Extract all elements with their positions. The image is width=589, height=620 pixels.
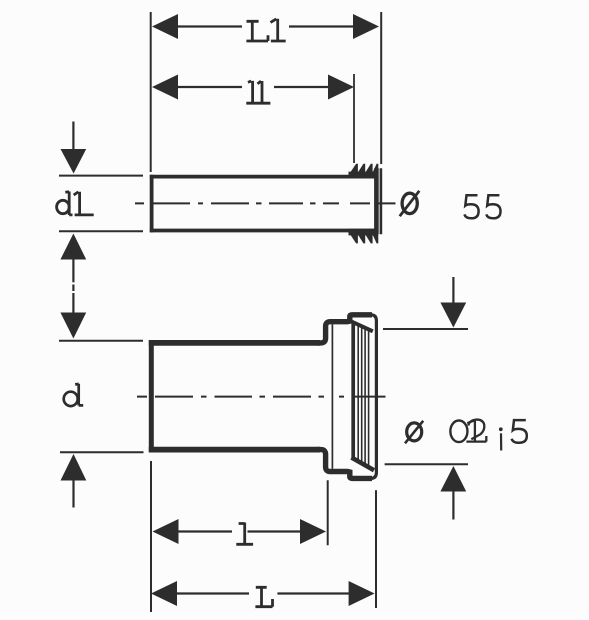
dimension L line	[177, 592, 350, 594]
dimension d upper extension line	[59, 340, 143, 342]
dimension l left arrowhead	[153, 519, 179, 544]
label 5 bottom	[512, 420, 527, 443]
socket seal face	[351, 324, 355, 460]
dimension L1 right arrowhead	[353, 14, 379, 39]
dimension L left arrowhead	[151, 581, 177, 606]
label 55	[464, 195, 500, 218]
extension line right l	[327, 480, 329, 545]
dimension l right arrowhead	[300, 519, 326, 544]
label inverted exclamation	[499, 427, 503, 450]
top pipe centerline	[135, 202, 396, 204]
top pipe end face	[376, 168, 381, 234]
top pipe thread serrations bottom	[349, 229, 379, 244]
extension line left (L1/l1)	[150, 12, 152, 172]
label L	[255, 587, 272, 606]
label l1	[246, 81, 270, 103]
label 12 ligature	[466, 420, 486, 442]
diameter symbol top	[400, 191, 420, 216]
bottom pipe centerline	[137, 396, 386, 398]
socket inner wall line	[331, 324, 333, 468]
socket seal bottom chamfer	[352, 458, 375, 471]
socket diameter lower extension line	[385, 463, 468, 465]
socket collar outline top	[317, 315, 372, 343]
socket collar right edge	[371, 315, 376, 479]
socket seal top chamfer	[349, 321, 373, 332]
dimension l line	[178, 530, 302, 532]
label L1	[246, 19, 285, 41]
diameter symbol bottom	[405, 421, 423, 444]
bottom pipe body	[149, 340, 320, 452]
label d	[64, 384, 84, 406]
dimension d1 upper extension line	[59, 175, 143, 177]
dimension L right arrowhead	[349, 581, 375, 606]
dimension L1 left arrowhead	[152, 14, 178, 39]
extension line right l1	[353, 74, 355, 163]
extension line bottom left (l/L)	[150, 461, 152, 612]
dimension d1 lower extension line	[59, 230, 143, 232]
dimension d1 bottom arrow	[60, 234, 86, 260]
label 0	[450, 421, 467, 443]
socket collar outline bottom	[317, 450, 372, 479]
label l	[236, 523, 253, 545]
dimension l1 line	[170, 86, 330, 88]
extension line right L1	[380, 12, 382, 164]
top pipe thread serrations top	[349, 164, 379, 178]
top pipe body	[150, 175, 378, 233]
dimension d bottom arrow	[61, 454, 87, 508]
dimension d lower extension line	[60, 451, 144, 453]
dimension d1 top arrow	[61, 122, 87, 174]
socket diameter bottom arrow	[440, 466, 466, 520]
dimension l1 right arrowhead	[328, 75, 354, 100]
label d1	[57, 192, 94, 216]
socket diameter upper extension line	[383, 328, 468, 330]
stem between d1 and d arrows (dash-dot)	[72, 260, 74, 313]
socket seal hatch lines	[358, 325, 368, 467]
dimension L1 line	[170, 25, 355, 27]
dimension d top arrow	[60, 313, 86, 339]
socket diameter top arrow	[440, 277, 466, 328]
extension line right L	[375, 490, 377, 608]
dimension l1 left arrowhead	[152, 75, 178, 100]
